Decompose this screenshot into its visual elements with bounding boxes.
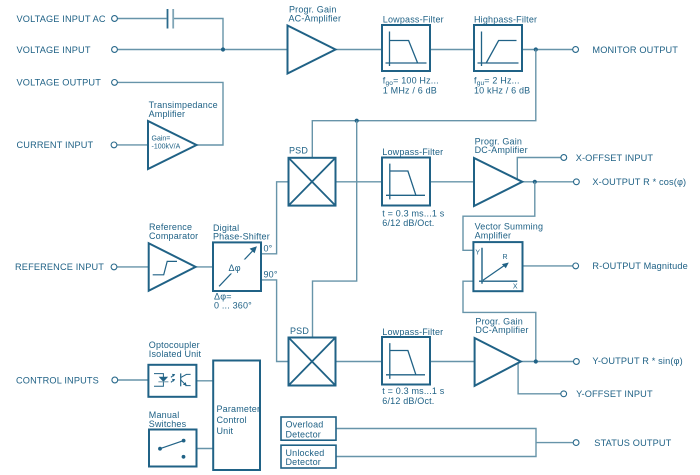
optocoupler isolated unit box xyxy=(148,365,196,397)
svg-text:Control: Control xyxy=(217,415,247,425)
lowpass monitor curve xyxy=(386,32,427,67)
terminal Y-OUTPUT xyxy=(574,359,580,365)
vector summing axes xyxy=(479,248,517,284)
terminal VOLTAGE INPUT AC xyxy=(112,16,118,22)
PSD upper box xyxy=(289,158,336,206)
wire VOLTAGE INPUT to AC amplifier xyxy=(117,49,287,51)
wire upper PSD output to X lowpass xyxy=(336,181,383,183)
svg-text:6/12 dB/Oct.: 6/12 dB/Oct. xyxy=(382,396,434,406)
svg-text:PSD: PSD xyxy=(290,326,309,336)
vector summing R arrow xyxy=(483,265,505,280)
wire Y-OFFSET INPUT to Y DC amplifier xyxy=(518,364,561,394)
wire VOLTAGE INPUT AC to capacitor xyxy=(117,18,166,20)
op-amp transimpedance amplifier triangle xyxy=(148,121,197,169)
svg-text:6/12 dB/Oct.: 6/12 dB/Oct. xyxy=(382,218,434,228)
terminal STATUS OUTPUT xyxy=(573,440,579,446)
wire highpass to monitor output xyxy=(522,49,573,51)
wire phase shifter 0 deg to upper PSD xyxy=(261,182,289,254)
svg-text:DC-Amplifier: DC-Amplifier xyxy=(475,325,528,335)
svg-text:X-OFFSET INPUT: X-OFFSET INPUT xyxy=(576,153,654,163)
svg-text:AC-Amplifier: AC-Amplifier xyxy=(289,14,342,24)
wire status merge to STATUS OUTPUT xyxy=(536,442,573,444)
terminal REFERENCE INPUT xyxy=(111,264,117,270)
phase shifter box xyxy=(213,242,261,291)
svg-text:Lowpass-Filter: Lowpass-Filter xyxy=(382,327,443,337)
wire X DC amp output to X-OUTPUT terminal xyxy=(522,181,573,183)
wire VOLTAGE OUTPUT loop from transimpedance output xyxy=(117,82,223,145)
comparator triangle xyxy=(149,243,196,291)
svg-text:0 ... 360°: 0 ... 360° xyxy=(214,301,252,311)
svg-text:-100kV/A: -100kV/A xyxy=(152,144,181,151)
svg-text:Δφ: Δφ xyxy=(229,263,241,273)
wire X lowpass to X DC amplifier xyxy=(430,181,474,183)
PSD upper X xyxy=(289,158,336,206)
junction Y output node xyxy=(534,359,538,363)
svg-text:REFERENCE INPUT: REFERENCE INPUT xyxy=(15,262,104,272)
svg-text:Amplifier: Amplifier xyxy=(475,231,512,241)
svg-text:STATUS OUTPUT: STATUS OUTPUT xyxy=(594,438,671,448)
svg-text:Lowpass-Filter: Lowpass-Filter xyxy=(383,14,444,24)
svg-text:VOLTAGE OUTPUT: VOLTAGE OUTPUT xyxy=(17,78,102,88)
wire X output node to vector summing amplifier xyxy=(463,182,535,251)
lowpass filter Y box xyxy=(382,337,430,385)
wire bus down to lower PSD xyxy=(313,121,357,338)
svg-text:CONTROL INPUTS: CONTROL INPUTS xyxy=(16,375,99,385)
wire comparator to phase shifter xyxy=(196,266,213,268)
svg-text:Gain=: Gain= xyxy=(152,136,171,143)
svg-text:Detector: Detector xyxy=(286,429,321,439)
wire vector summing output to R-OUTPUT xyxy=(523,265,574,267)
highpass monitor curve xyxy=(478,32,519,67)
wire vector summing lower input from Y output node xyxy=(463,281,536,361)
wire X-OFFSET INPUT to X DC amplifier xyxy=(517,158,561,180)
svg-text:R: R xyxy=(503,254,508,261)
value label delta phi inside phase shifter xyxy=(227,260,247,274)
terminal VOLTAGE OUTPUT xyxy=(112,80,118,86)
wire AC amplifier to lowpass filter xyxy=(336,49,383,51)
phase shifter arrow xyxy=(219,251,253,287)
svg-text:VOLTAGE INPUT: VOLTAGE INPUT xyxy=(17,45,91,55)
highpass filter monitor box xyxy=(474,25,522,71)
svg-text:Y-OFFSET INPUT: Y-OFFSET INPUT xyxy=(576,389,653,399)
junction monitor node xyxy=(534,47,538,51)
wire capacitor to elbow down to voltage input net xyxy=(174,19,223,50)
wire CURRENT INPUT to transimpedance amplifier xyxy=(117,144,148,146)
capacitor C1 plate right xyxy=(172,9,174,29)
svg-text:X-OUTPUT R * cos(φ): X-OUTPUT R * cos(φ) xyxy=(592,177,686,187)
wire REFERENCE INPUT to comparator xyxy=(117,266,149,268)
svg-text:DC-Amplifier: DC-Amplifier xyxy=(475,145,528,155)
PSD lower box xyxy=(289,338,336,386)
svg-text:MONITOR OUTPUT: MONITOR OUTPUT xyxy=(592,45,678,55)
unlocked detector box xyxy=(281,445,336,468)
overload detector box xyxy=(281,417,336,440)
wire optocoupler to parameter control unit xyxy=(196,380,213,382)
svg-text:CURRENT INPUT: CURRENT INPUT xyxy=(17,140,94,150)
wire manual switches to parameter control unit xyxy=(197,448,214,450)
svg-text:10 kHz / 6 dB: 10 kHz / 6 dB xyxy=(474,86,530,96)
wire lower PSD output to Y lowpass xyxy=(336,361,383,363)
manual switches box xyxy=(149,430,197,467)
terminal VOLTAGE INPUT xyxy=(112,47,118,53)
svg-text:Switches: Switches xyxy=(149,419,187,429)
svg-text:Lowpass-Filter: Lowpass-Filter xyxy=(382,147,443,157)
lowpass X curve xyxy=(386,164,425,200)
wire Y lowpass to Y DC amplifier xyxy=(430,361,475,363)
vector summing amplifier box xyxy=(473,242,522,291)
op-amp AC amplifier triangle xyxy=(288,26,336,74)
svg-text:Y-OUTPUT R * sin(φ): Y-OUTPUT R * sin(φ) xyxy=(592,356,682,366)
svg-text:Parameter: Parameter xyxy=(217,404,261,414)
parameter control unit box xyxy=(213,361,260,471)
capacitor C1 plate left xyxy=(167,9,169,29)
svg-text:X: X xyxy=(513,284,518,291)
wire CONTROL INPUTS to optocoupler xyxy=(118,379,149,381)
wire monitor node down to PSD feed bus xyxy=(312,50,536,158)
terminal MONITOR OUTPUT xyxy=(573,47,579,53)
junction voltage input node xyxy=(221,47,225,51)
terminal CONTROL INPUTS xyxy=(112,377,118,383)
junction X output node xyxy=(533,180,537,184)
svg-text:t = 0.3 ms...1 s: t = 0.3 ms...1 s xyxy=(382,208,444,218)
svg-text:Y: Y xyxy=(475,250,480,257)
wire overload detector to status merge xyxy=(336,429,536,457)
optocoupler symbol xyxy=(154,373,191,386)
svg-text:Amplifier: Amplifier xyxy=(149,109,186,119)
svg-text:PSD: PSD xyxy=(289,145,308,155)
svg-text:90°: 90° xyxy=(264,270,278,280)
svg-text:Highpass-Filter: Highpass-Filter xyxy=(474,14,537,24)
svg-text:Isolated Unit: Isolated Unit xyxy=(149,349,202,359)
wire phase shifter 90 deg to lower PSD xyxy=(261,280,289,362)
lowpass Y curve xyxy=(386,343,425,379)
svg-text:Detector: Detector xyxy=(286,457,321,467)
junction PSD feed bus xyxy=(355,119,359,123)
lowpass filter X box xyxy=(382,158,430,206)
svg-text:VOLTAGE INPUT AC: VOLTAGE INPUT AC xyxy=(17,14,106,24)
PSD lower X xyxy=(289,338,336,386)
comparator step symbol xyxy=(153,261,177,274)
terminal CURRENT INPUT xyxy=(111,142,117,148)
manual switch symbol xyxy=(158,439,185,459)
wire lowpass to highpass xyxy=(430,49,474,51)
terminal R-OUTPUT xyxy=(573,263,579,269)
svg-text:t = 0.3 ms...1 s: t = 0.3 ms...1 s xyxy=(382,386,444,396)
terminal X-OUTPUT xyxy=(574,179,580,185)
terminal X-OFFSET INPUT xyxy=(561,155,567,161)
svg-text:0°: 0° xyxy=(264,244,273,254)
svg-text:1 MHz / 6 dB: 1 MHz / 6 dB xyxy=(383,86,437,96)
svg-text:R-OUTPUT Magnitude: R-OUTPUT Magnitude xyxy=(592,261,687,271)
op-amp X DC amplifier triangle xyxy=(474,158,522,206)
terminal Y-OFFSET INPUT xyxy=(561,391,567,397)
svg-text:Unit: Unit xyxy=(217,426,234,436)
lowpass filter monitor box xyxy=(382,25,430,71)
wire Y DC amp output to Y-OUTPUT terminal xyxy=(521,361,574,363)
svg-text:Phase-Shifter: Phase-Shifter xyxy=(213,232,270,242)
op-amp Y DC amplifier triangle xyxy=(475,338,521,386)
svg-text:Overload: Overload xyxy=(286,420,324,430)
svg-text:Comparator: Comparator xyxy=(149,231,198,241)
